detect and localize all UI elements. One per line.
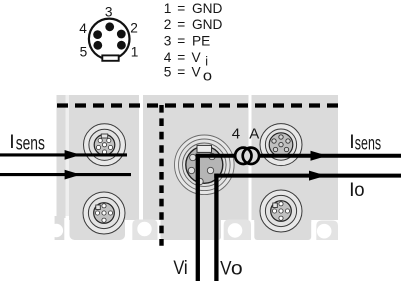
pinout connector circle: [89, 19, 130, 61]
svg-text:i: i: [184, 257, 188, 279]
module B foot slab: [161, 216, 222, 240]
svg-text:2: 2: [130, 20, 138, 35]
svg-text:2=GND: 2=GND: [164, 17, 223, 32]
pin 4 dot: [93, 30, 102, 39]
connector J1 top-left: [84, 124, 126, 166]
arrowhead Isens right: [311, 151, 328, 161]
mounting hole 3: [228, 223, 243, 238]
svg-text:3=PE: 3=PE: [164, 33, 210, 48]
module C foot slab: [254, 216, 311, 240]
svg-text:o: o: [203, 69, 212, 85]
wire Vi / Isens out (L-shape): [196, 154, 200, 281]
arrowhead Isens left: [65, 150, 81, 160]
svg-text:1=GND: 1=GND: [164, 1, 223, 16]
svg-text:5=V: 5=V: [164, 64, 202, 79]
pin 1 dot: [117, 41, 126, 50]
wire Vo / Io out (L-shape): [214, 174, 218, 281]
svg-text:V: V: [220, 257, 231, 279]
mounting ear tab 3: [224, 220, 251, 241]
svg-text:1: 1: [131, 44, 139, 59]
joint filler A top: [70, 216, 126, 222]
svg-text:V: V: [173, 257, 184, 279]
mounting ear tab 4: [316, 221, 338, 241]
pin 3 dot: [105, 22, 114, 31]
fuse F1 circle a: [235, 148, 251, 164]
module panel background: [50, 95, 339, 240]
pin 2 dot: [117, 30, 126, 39]
dashed demarcation line horizontal: [57, 103, 338, 107]
fuse F1 circle b: [243, 148, 259, 164]
arrowhead Io right: [309, 171, 326, 181]
mounting hole 1: [50, 224, 64, 238]
svg-text:4: 4: [79, 21, 87, 36]
dashed demarcation line vertical: [159, 105, 163, 246]
mounting hole 4: [317, 224, 332, 239]
connector J5 center (power): [175, 135, 235, 195]
module B body: [143, 95, 249, 220]
module A foot slab: [70, 216, 126, 240]
module sliver left: [57, 95, 66, 218]
mounting ear tab 2: [132, 220, 157, 241]
svg-text:o: o: [231, 257, 243, 279]
svg-text:I: I: [349, 131, 354, 153]
module A body: [69, 95, 139, 220]
module C body: [252, 95, 339, 220]
wire Isens left segment: [0, 153, 127, 156]
pin 5 dot: [93, 41, 102, 50]
svg-text:4: 4: [232, 125, 240, 142]
mounting hole 2: [137, 222, 151, 236]
svg-text:5: 5: [80, 44, 88, 59]
module gap 1 filler: [66, 95, 70, 216]
svg-text:sens: sens: [16, 132, 45, 154]
joint filler B top: [161, 216, 222, 222]
svg-text:sens: sens: [355, 132, 381, 154]
svg-text:o: o: [354, 179, 364, 201]
connector J2 bottom-left: [83, 192, 125, 234]
svg-text:A: A: [249, 125, 259, 142]
connector J3 top-right: [260, 124, 302, 166]
svg-text:I: I: [9, 131, 14, 153]
keying notch: [102, 55, 118, 60]
connector J4 bottom-right: [260, 190, 302, 232]
joint filler C top: [254, 216, 311, 222]
fuse F1 fills: [235, 148, 251, 164]
arrowhead Io left: [65, 170, 81, 180]
wire Io left segment: [0, 173, 131, 176]
svg-text:3: 3: [105, 4, 113, 19]
